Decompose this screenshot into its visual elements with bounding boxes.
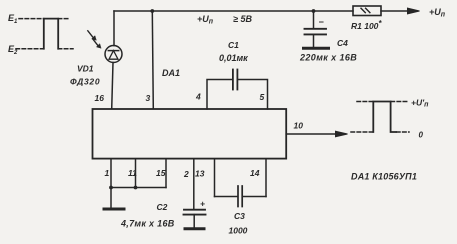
ground (C4) [304, 47, 329, 50]
net label 0 [419, 131, 424, 140]
value label 220mk x 16V [299, 53, 357, 63]
svg-text:DA1: DA1 [162, 68, 180, 78]
pin 15 wire [165, 159, 167, 188]
value label 1000 [229, 226, 248, 236]
pin 3 label [146, 93, 151, 103]
reference label DA1 K1056UP1 [351, 172, 417, 182]
svg-text:0: 0 [419, 131, 424, 140]
pin 5 label [260, 92, 265, 102]
pin 1 wire to ground [110, 159, 112, 208]
svg-text:+: + [200, 199, 205, 209]
svg-text:13: 13 [195, 169, 205, 179]
wire: C1 to pin 5 [238, 80, 268, 110]
svg-text:2: 2 [183, 169, 189, 179]
svg-text:0,01мк: 0,01мк [219, 53, 248, 63]
pin 15 label [156, 168, 166, 178]
svg-text:R1 100*: R1 100* [351, 19, 382, 31]
node: junction dot C4 branch [312, 9, 316, 13]
reference label C2 [157, 202, 168, 212]
capacitor C4 [305, 11, 327, 47]
wire: +Up rail from photodiode top to resistor [114, 10, 353, 12]
net label +Up >= 5V [197, 14, 252, 26]
ground (C2) [185, 227, 204, 230]
photodiode VD1 [88, 11, 122, 109]
capacitor C2 [184, 199, 206, 228]
svg-text:−: − [319, 17, 325, 27]
svg-text:4,7мк x 16В: 4,7мк x 16В [120, 219, 175, 229]
svg-text:ФД320: ФД320 [70, 77, 100, 87]
value label R1 100* [351, 19, 382, 31]
node: junction dot pin 11 [134, 186, 138, 190]
svg-text:DA1 К1056УП1: DA1 К1056УП1 [351, 172, 417, 182]
reference label VD1 [77, 64, 94, 74]
pin 13 wire [214, 159, 216, 197]
node: junction dot pin 1 [109, 186, 113, 190]
pin 4 label [195, 92, 201, 102]
svg-text:3: 3 [146, 93, 151, 103]
resistor R1 [353, 6, 381, 16]
node E input waveform [16, 19, 73, 49]
wire: rail to pin 3 [152, 11, 153, 109]
svg-text:VD1: VD1 [77, 64, 94, 74]
pin 11 wire [135, 159, 137, 188]
svg-text:E1: E1 [8, 13, 18, 25]
svg-text:C4: C4 [337, 38, 348, 48]
wire: pin 4 to C1 [207, 80, 233, 110]
reference label C3 [234, 211, 245, 221]
pin 14 label [250, 168, 260, 178]
node: junction dot pin3 branch [150, 9, 154, 13]
svg-text:C2: C2 [157, 202, 168, 212]
svg-text:10: 10 [294, 121, 304, 131]
reference label DA1 [162, 68, 180, 78]
value label C4 [337, 38, 348, 48]
svg-text:4: 4 [195, 92, 201, 102]
wire: C3 to pin 14 [242, 196, 266, 198]
pin 10 label [294, 121, 304, 131]
pin 16 label [95, 93, 105, 103]
svg-text:11: 11 [128, 168, 137, 178]
pin 13 label [195, 169, 205, 179]
svg-text:220мк x 16В: 220мк x 16В [299, 53, 357, 63]
svg-text:C3: C3 [234, 211, 245, 221]
pin 14 wire [265, 159, 267, 197]
node E1 label [8, 13, 18, 25]
wire: resistor to output arrow +Up [381, 8, 420, 14]
net label +U'p [411, 98, 429, 109]
value label C1 [228, 40, 239, 50]
node output waveform +U'p [351, 102, 409, 133]
capacitor C1 [233, 70, 238, 90]
op-amp U1: IC DA1 body [93, 109, 287, 159]
pin 10 output wire [286, 131, 347, 137]
capacitor C3 [238, 186, 242, 207]
net label +Up right [429, 7, 446, 19]
pin 2 label [183, 169, 189, 179]
svg-text:15: 15 [156, 168, 166, 178]
wire: pins 1,11,15 common [111, 187, 166, 189]
svg-text:14: 14 [250, 168, 260, 178]
ground (pin 1) [104, 208, 124, 211]
svg-text:+Uп≥ 5В: +Uп≥ 5В [197, 14, 252, 26]
wire: pin 13 to C3 [215, 196, 238, 198]
pin 1 label [105, 168, 110, 178]
svg-text:5: 5 [260, 92, 265, 102]
node E2 label [8, 44, 18, 56]
pin 11 label [128, 168, 137, 178]
svg-text:1: 1 [105, 168, 110, 178]
svg-text:1000: 1000 [229, 226, 248, 236]
value label 4,7mk x 16V [120, 219, 175, 229]
pin 2 wire [193, 159, 195, 209]
svg-text:E2: E2 [8, 44, 18, 56]
svg-text:16: 16 [95, 93, 105, 103]
value label FD320 [70, 77, 100, 87]
svg-text:+U'п: +U'п [411, 98, 429, 109]
svg-text:C1: C1 [228, 40, 239, 50]
svg-text:+Uп: +Uп [429, 7, 446, 19]
value label 0,01mk [219, 53, 248, 63]
